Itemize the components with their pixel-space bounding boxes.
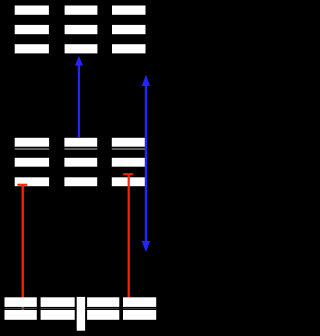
- level bar: top group C bar2: [112, 25, 146, 34]
- red marker line 2 (right) cap: [123, 173, 133, 175]
- level bar: middle group C bar1: [112, 138, 145, 147]
- bottom band segment 4 upper bar: [123, 297, 156, 307]
- thin sub-level line under middle group C bar1: [112, 148, 145, 149]
- bottom band segment 3 upper bar: [87, 297, 119, 307]
- level bar: top group B bar2: [65, 25, 98, 34]
- level bar: middle group B bar1: [64, 138, 97, 147]
- level bar: middle group A bar1: [15, 138, 49, 147]
- level bar: top group C bar3: [112, 44, 146, 53]
- level bar: middle group B bar2: [64, 158, 97, 167]
- bottom band segment 2 upper bar: [41, 297, 75, 307]
- level bar: middle group C bar3: [112, 177, 145, 186]
- level bar: middle group A bar3: [15, 177, 49, 186]
- bottom band segment 4 divider line: [123, 308, 156, 309]
- bottom band segment 3 divider line: [87, 308, 119, 309]
- level bar: top group C bar1: [112, 6, 146, 15]
- level bar: middle group B bar3: [64, 177, 97, 186]
- bottom central pillar: [77, 297, 85, 331]
- bottom band segment 1 lower bar: [5, 310, 37, 320]
- thin sub-level line under middle group B bar1: [64, 148, 97, 149]
- level bar: top group B bar1: [65, 6, 98, 15]
- level bar: top group A bar3: [15, 44, 49, 53]
- level bar: top group A bar1: [15, 6, 49, 15]
- red marker line 1 (left) vertical: [22, 185, 24, 310]
- red marker line 2 (right) vertical: [128, 174, 130, 297]
- bottom band segment 3 lower bar: [87, 310, 119, 320]
- blue up-arrow (center) head: [75, 56, 83, 66]
- bottom band segment 1 divider line: [5, 308, 37, 309]
- blue up-arrow (center) shaft: [78, 65, 80, 138]
- level bar: middle group C bar2: [112, 158, 145, 167]
- bottom band segment 4 lower bar: [123, 310, 156, 320]
- level bar: top group B bar3: [65, 44, 98, 53]
- thin sub-level line under middle group A bar1: [15, 148, 49, 149]
- level bar: middle group A bar2: [15, 158, 49, 167]
- level bar: top group A bar2: [15, 25, 49, 34]
- blue double arrow (right) shaft: [145, 86, 147, 242]
- red marker line 1 (left) cap: [17, 184, 27, 186]
- blue double arrow (right) bottom head: [142, 241, 150, 252]
- bottom band segment 2 divider line: [41, 308, 75, 309]
- bottom band segment 2 lower bar: [41, 310, 75, 320]
- blue double arrow (right) top head: [142, 75, 150, 86]
- bottom band segment 1 upper bar: [5, 297, 37, 307]
